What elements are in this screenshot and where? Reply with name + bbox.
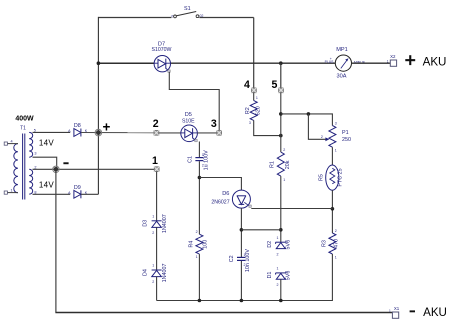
svg-text:3: 3: [211, 118, 217, 130]
svg-text:0: 0: [171, 14, 173, 18]
svg-text:1: 1: [387, 59, 389, 63]
svg-text:10n 100V: 10n 100V: [245, 249, 251, 272]
svg-text:S1: S1: [184, 6, 191, 12]
svg-text:D9: D9: [74, 185, 81, 191]
junction plus: [96, 130, 101, 135]
svg-text:C2: C2: [229, 255, 235, 262]
thyristor D7: [152, 41, 172, 72]
svg-text:X2: X2: [390, 54, 396, 59]
svg-text:AKU: AKU: [423, 306, 447, 319]
svg-text:+: +: [102, 120, 110, 135]
wire P1 top branch: [281, 114, 333, 126]
wire minus drop: [55, 169, 57, 312]
svg-text:5V6: 5V6: [285, 240, 291, 250]
svg-text:3: 3: [34, 151, 36, 155]
wire D6 cathode down: [240, 208, 242, 257]
svg-text:PTC 25: PTC 25: [337, 168, 343, 186]
node 2: [153, 118, 159, 136]
wire R2 bottom to node5 column: [254, 120, 281, 135]
svg-text:R3: R3: [321, 240, 327, 247]
wire C2 bottom to rail: [240, 261, 242, 301]
node 5: [271, 79, 283, 93]
svg-text:X1: X1: [394, 306, 400, 311]
wire D1 bottom to rail: [280, 279, 282, 300]
svg-text:1N4007: 1N4007: [162, 263, 168, 282]
svg-text:1: 1: [152, 214, 154, 218]
label + AKU: [405, 59, 415, 61]
svg-text:R2: R2: [245, 107, 251, 114]
junction D7 row at plus rail: [97, 61, 101, 65]
svg-text:2N6027: 2N6027: [211, 200, 229, 206]
svg-text:1: 1: [335, 256, 337, 260]
svg-text:S1070W: S1070W: [152, 47, 172, 53]
svg-text:1u 100V: 1u 100V: [203, 150, 209, 170]
wire node5 column down: [280, 93, 282, 152]
PUT D6: [211, 190, 251, 208]
capacitor C1: [187, 150, 209, 170]
wire D7 row left: [98, 62, 154, 64]
svg-text:R4: R4: [189, 241, 195, 248]
junction D6 cathode row right: [279, 228, 283, 232]
wire sec1 bottom path: [33, 157, 57, 169]
svg-text:2: 2: [277, 252, 279, 256]
wire node 5 drop: [280, 63, 282, 88]
svg-text:1: 1: [389, 309, 391, 313]
wire D3 to D4: [156, 227, 158, 270]
svg-text:1: 1: [196, 255, 198, 259]
wire P1 wiper: [308, 114, 326, 139]
junction R2 join: [279, 134, 283, 138]
connector X2: [387, 54, 397, 67]
svg-text:1: 1: [277, 236, 279, 240]
svg-text:3: 3: [249, 121, 251, 125]
svg-text:1: 1: [335, 148, 337, 152]
junction D6 cathode: [240, 228, 244, 232]
svg-text:4: 4: [244, 79, 250, 91]
svg-text:5: 5: [271, 79, 277, 91]
svg-text:P1: P1: [342, 130, 349, 136]
wire D4 to rail: [156, 277, 158, 301]
svg-text:620: 620: [255, 106, 261, 115]
resistor R4: [189, 230, 209, 259]
svg-text:5V6: 5V6: [285, 271, 291, 281]
capacitor C2: [229, 249, 251, 272]
svg-text:2: 2: [196, 230, 198, 234]
svg-text:250: 250: [342, 137, 351, 143]
svg-text:2: 2: [202, 163, 204, 167]
svg-text:2: 2: [244, 263, 246, 267]
svg-text:2: 2: [153, 118, 159, 130]
diode D3: [143, 214, 168, 235]
wire PTC to gate junction: [331, 190, 333, 233]
svg-text:R5: R5: [318, 174, 324, 181]
svg-text:5: 5: [34, 128, 36, 132]
resistor R3: [321, 229, 339, 260]
wire D8 to plus junction to node 2: [81, 132, 154, 134]
diode D4: [143, 263, 168, 284]
junction rail C2: [240, 299, 244, 303]
wire D7 row right to meter: [170, 62, 335, 64]
junction rail D1: [279, 299, 283, 303]
node 3: [211, 118, 222, 136]
wire R1 bottom to D2: [280, 176, 282, 242]
diode D9: [68, 185, 88, 199]
wire top right from switch to S1 drop: [199, 17, 253, 19]
junction P1 branch: [279, 112, 283, 116]
diode D8: [68, 123, 88, 137]
potentiometer P1: [321, 122, 351, 153]
svg-text:30A: 30A: [337, 74, 347, 80]
junction C1 bottom: [198, 176, 202, 180]
node 1: [152, 155, 159, 172]
wire D7 gate path: [169, 72, 219, 131]
wire R3 bottom to rail: [157, 254, 333, 301]
svg-text:4: 4: [11, 140, 13, 144]
junction wiper branch: [307, 112, 311, 116]
svg-text:1: 1: [277, 267, 279, 271]
svg-text:2: 2: [152, 280, 154, 284]
wire plus rail vertical: [97, 17, 99, 194]
svg-text:D3: D3: [143, 220, 149, 227]
svg-text:2: 2: [152, 231, 154, 235]
wire meter to X2: [352, 62, 391, 64]
svg-text:1: 1: [152, 264, 154, 268]
svg-text:1N4007: 1N4007: [162, 214, 168, 233]
svg-text:2: 2: [277, 283, 279, 287]
svg-text:2: 2: [283, 148, 285, 152]
svg-text:20k: 20k: [285, 160, 291, 169]
resistor R1: [270, 148, 291, 182]
wire sec2 bottom to D9: [33, 193, 71, 195]
wire top left from + rail to switch: [98, 17, 171, 19]
wire D9 to plus rail: [81, 193, 99, 195]
wire S1 drop to node 4: [253, 18, 255, 89]
zener D1: [267, 267, 291, 288]
svg-text:1: 1: [11, 189, 13, 193]
wire junction to D6 anode: [199, 178, 241, 191]
wire D6 gate row: [251, 208, 332, 210]
label - AKU: [410, 310, 415, 312]
svg-text:D6: D6: [222, 191, 229, 197]
wire D5 to node 3: [197, 132, 217, 134]
node 4: [244, 79, 256, 93]
switch S1: [171, 6, 203, 18]
svg-text:400W: 400W: [15, 116, 34, 123]
junction minus: [54, 167, 59, 172]
transformer T1: [4, 116, 54, 200]
PTC thermistor R5: [318, 165, 343, 190]
svg-text:T1: T1: [20, 126, 26, 132]
wire minus row: [33, 168, 155, 170]
wire R4 bottom to rail: [198, 254, 200, 300]
wire D6 cathode row to D2 column: [241, 229, 280, 231]
ammeter MP1: [325, 47, 366, 80]
connector X1: [389, 306, 400, 319]
wire C1 bottom to junction: [198, 161, 200, 234]
svg-text:C1: C1: [187, 156, 193, 163]
svg-text:D4: D4: [143, 269, 149, 276]
thyristor D5: [181, 112, 198, 142]
label minus: [63, 162, 68, 164]
svg-text:2: 2: [335, 229, 337, 233]
svg-text:D8: D8: [74, 123, 81, 129]
junction D6 gate row: [331, 207, 335, 211]
svg-text:AKU: AKU: [423, 55, 447, 68]
svg-text:470: 470: [334, 239, 340, 248]
wire D5 gate down to C1: [198, 142, 200, 158]
resistor R2: [245, 93, 261, 126]
svg-text:PLUS: PLUS: [325, 60, 335, 64]
svg-text:100: 100: [202, 240, 208, 249]
svg-text:1: 1: [244, 253, 246, 257]
svg-text:D2: D2: [267, 241, 273, 248]
wire node 2 to D5: [159, 132, 181, 134]
svg-text:R1: R1: [270, 161, 276, 168]
svg-text:1: 1: [283, 178, 285, 182]
wire P1 to PTC: [331, 147, 333, 165]
svg-text:14V: 14V: [39, 181, 54, 190]
svg-text:D1: D1: [267, 272, 273, 279]
svg-text:3: 3: [335, 122, 337, 126]
svg-text:14V: 14V: [39, 139, 54, 148]
wire node1 down to D3: [156, 172, 158, 221]
wire sec1 top to D8: [33, 131, 71, 133]
svg-text:MP1: MP1: [336, 47, 348, 53]
junction node5 drop: [279, 61, 283, 65]
wire bottom to X1: [55, 312, 392, 314]
zener D2: [267, 236, 291, 257]
svg-text:S10E: S10E: [182, 118, 195, 124]
junction rail R4: [198, 299, 202, 303]
svg-text:1: 1: [152, 155, 158, 167]
svg-text:1: 1: [256, 96, 258, 100]
svg-text:1: 1: [202, 153, 204, 157]
svg-text:2: 2: [321, 135, 323, 139]
svg-text:D5: D5: [185, 112, 192, 118]
